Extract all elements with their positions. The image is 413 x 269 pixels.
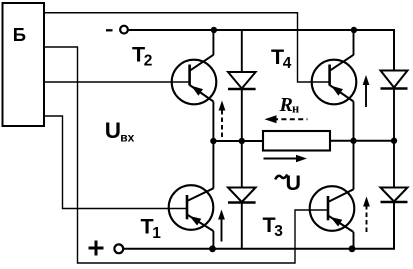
junction dot: center/left diode rail xyxy=(239,138,245,144)
label ~U xyxy=(275,174,287,179)
wire: left rail lower (T1 emitter to plus) xyxy=(212,231,214,249)
dashed arrow up beside T3 xyxy=(363,197,370,233)
svg-text:2: 2 xyxy=(144,53,153,70)
plus sign xyxy=(89,241,104,256)
wire: bridge center line left xyxy=(213,140,263,142)
solid current arrow right (load) xyxy=(264,155,308,162)
transistor T4 xyxy=(312,55,357,105)
minus sign xyxy=(106,29,113,31)
svg-text:вх: вх xyxy=(120,131,134,145)
wire: negative rail xyxy=(128,30,394,71)
wire: box to T2 base xyxy=(44,81,189,83)
junction dot: plus/right rail xyxy=(349,245,356,252)
junction dot: center/left rail xyxy=(210,138,216,144)
transistor T3 xyxy=(310,186,355,232)
svg-text:U: U xyxy=(286,171,302,195)
svg-text:3: 3 xyxy=(274,223,283,240)
dashed current arrow left (Rn) xyxy=(265,115,308,123)
wire: left rail upper (T2 collector to minus) xyxy=(212,30,214,55)
transistor T1 xyxy=(169,185,214,231)
wire: right rail middle (T4 emitter to T3 collector) xyxy=(353,102,355,190)
dashed arrow up beside T2 xyxy=(219,101,226,138)
load resistor Rn box xyxy=(263,131,330,151)
wire: left diode rail xyxy=(241,30,243,249)
svg-text:1: 1 xyxy=(152,225,161,242)
wire: right rail upper (T4 collector to minus) xyxy=(353,30,355,55)
control block B rectangle xyxy=(3,3,45,126)
wire: right diode rail xyxy=(393,89,395,188)
wire: left rail middle (T2 emitter to T1 collector) xyxy=(212,102,214,189)
svg-text:4: 4 xyxy=(283,55,292,72)
junction dot: minus/left rail xyxy=(211,27,217,33)
wire: box to T1 base xyxy=(44,116,186,209)
solid arrow up beside T1 xyxy=(218,210,225,242)
svg-text:R: R xyxy=(279,94,293,116)
junction dot: plus/left rail xyxy=(209,245,216,252)
plus terminal circle xyxy=(114,244,123,253)
wire: positive rail xyxy=(123,202,394,249)
diode D3 xyxy=(381,188,408,203)
wire: box to T4 base (top route) xyxy=(44,13,329,82)
junction dot: minus/right rail xyxy=(351,27,357,33)
diode D2 xyxy=(228,72,256,89)
minus terminal circle xyxy=(120,26,128,34)
junction dot: center/right diode rail xyxy=(391,138,397,144)
diode D1 xyxy=(228,188,256,203)
svg-text:н: н xyxy=(292,102,299,116)
wire: box to T3 base (bottom route) xyxy=(44,47,328,263)
transistor T2 xyxy=(172,55,217,105)
junction dot: center/right rail xyxy=(350,138,356,144)
svg-text:U: U xyxy=(105,118,121,143)
wire: bridge center line right xyxy=(330,140,394,142)
solid arrow up beside T4 xyxy=(363,75,370,107)
svg-text:Б: Б xyxy=(13,24,26,45)
diode D4 xyxy=(381,71,408,89)
wire: right rail lower (T3 emitter to plus) xyxy=(353,232,355,249)
